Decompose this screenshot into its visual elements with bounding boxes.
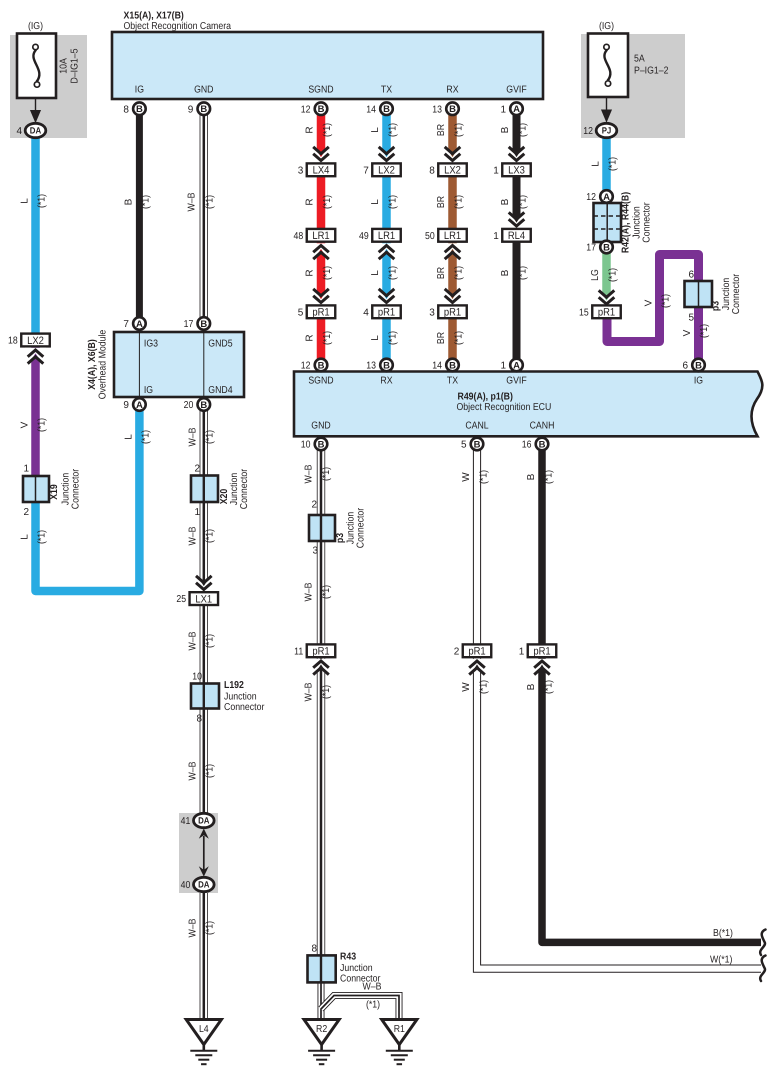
chevron out of LX2 — [25, 348, 46, 364]
svg-text:IG: IG — [135, 85, 144, 96]
svg-text:2: 2 — [194, 464, 200, 475]
svg-text:(*1): (*1) — [454, 331, 465, 345]
chevron into LX1 — [193, 576, 214, 592]
wire label W-B (*1) below p3 — [304, 582, 333, 601]
svg-text:(*1): (*1) — [518, 195, 529, 209]
camera pin 12 B — [301, 102, 328, 115]
svg-text:10: 10 — [192, 672, 202, 683]
svg-text:B: B — [124, 198, 135, 205]
wire label W (*1) CANL lower — [461, 680, 490, 694]
svg-text:GND5: GND5 — [208, 339, 233, 350]
junction connector X20 pin 2/1 — [191, 464, 218, 519]
svg-text:Junction: Junction — [224, 692, 257, 703]
junction connector p3 pin 6/5 right — [685, 270, 713, 324]
svg-text:(*1): (*1) — [205, 764, 216, 778]
svg-text:CANL: CANL — [465, 421, 489, 432]
svg-text:15: 15 — [579, 307, 589, 318]
svg-text:1: 1 — [500, 104, 506, 115]
wire L (blue) fuse P-IG1-2 to junction R42 — [602, 137, 611, 198]
wire label B (*1) CANH upper — [526, 470, 555, 484]
svg-text:16: 16 — [522, 440, 532, 451]
svg-text:TX: TX — [381, 85, 392, 96]
svg-text:DA: DA — [198, 816, 210, 826]
svg-text:SGND: SGND — [308, 376, 333, 387]
svg-text:(*1): (*1) — [544, 470, 555, 484]
wire W-B module pin 20 to ground L4 — [200, 404, 208, 1018]
svg-text:B: B — [603, 243, 610, 254]
svg-text:10: 10 — [301, 440, 311, 451]
chevron into pR1 — [311, 289, 332, 305]
svg-text:B: B — [136, 104, 143, 115]
ECU pin 6 B — [682, 359, 704, 372]
svg-text:(*1): (*1) — [454, 195, 465, 209]
svg-text:25: 25 — [176, 594, 186, 605]
svg-text:1: 1 — [194, 507, 200, 518]
module pin 20 B — [184, 398, 211, 411]
connector pR1 pin 1 — [519, 644, 557, 657]
connector LX3 pin 1 — [493, 163, 531, 176]
svg-text:(*1): (*1) — [37, 194, 48, 208]
label R43 Junction Connector — [340, 952, 381, 985]
svg-text:RX: RX — [446, 85, 458, 96]
svg-text:(*1): (*1) — [388, 195, 399, 209]
svg-text:14: 14 — [366, 104, 376, 115]
svg-text:9: 9 — [123, 400, 129, 411]
svg-text:(*1): (*1) — [454, 266, 465, 280]
svg-text:12: 12 — [586, 192, 596, 203]
svg-text:(*1): (*1) — [321, 585, 332, 599]
wire label BR (*1) mid1 — [436, 195, 465, 209]
svg-text:12: 12 — [301, 361, 311, 372]
svg-text:(*1): (*1) — [322, 331, 333, 345]
wire label W-B (*1) branch to R1 — [363, 982, 382, 1011]
svg-text:Connector: Connector — [224, 702, 265, 713]
svg-text:X19: X19 — [49, 484, 60, 500]
svg-text:W–B: W–B — [188, 526, 199, 545]
svg-text:14: 14 — [432, 361, 442, 372]
svg-text:(*1): (*1) — [479, 470, 490, 484]
wire label L (*1) mid1 — [370, 195, 399, 209]
wire L (blue) fuse D-IG1-5 to connector LX2 — [31, 135, 40, 340]
wire label R (*1) upper — [305, 123, 334, 137]
ECU pin 14 B — [432, 359, 459, 372]
svg-text:R: R — [305, 198, 316, 205]
wire W-B branch R43 to ground R1 — [321, 996, 399, 1021]
svg-text:(*1): (*1) — [518, 266, 529, 280]
module pin 9 A — [123, 398, 145, 411]
svg-text:13: 13 — [432, 104, 442, 115]
svg-text:(*1): (*1) — [141, 195, 152, 209]
wire BR (brown) camera RX to ECU pin 14 — [448, 108, 457, 365]
svg-text:L: L — [370, 270, 381, 276]
wire label W-B (*1) below X20 — [188, 526, 216, 545]
connector LR1 pin 49 — [359, 229, 401, 242]
svg-text:(*1): (*1) — [322, 266, 333, 280]
svg-text:GVIF: GVIF — [506, 85, 526, 96]
svg-text:B(*1): B(*1) — [713, 928, 733, 939]
svg-text:W(*1): W(*1) — [710, 955, 732, 966]
module pin 17 B — [184, 317, 211, 330]
svg-text:LX2: LX2 — [27, 335, 44, 347]
wire label B (*1) GVIF lower — [500, 266, 529, 280]
svg-text:9: 9 — [188, 104, 194, 115]
svg-text:R: R — [305, 269, 316, 276]
wire label R (*1) mid1 — [305, 195, 334, 209]
svg-text:A: A — [513, 361, 520, 372]
chevron into pR1 pin 15 — [596, 290, 617, 306]
svg-text:6: 6 — [682, 361, 688, 372]
connector oval PJ pin 12 — [583, 123, 617, 137]
svg-text:p3: p3 — [711, 301, 722, 312]
svg-text:p3: p3 — [335, 533, 346, 544]
connector oval DA pin 4 — [16, 123, 45, 137]
svg-text:W–B: W–B — [304, 464, 315, 483]
connector LX2 pin 8 — [429, 163, 467, 176]
ECU box Object Recognition ECU R49(A), p1(B) — [294, 372, 762, 437]
camera pin name labels — [135, 85, 527, 96]
ground R1 — [382, 1020, 417, 1065]
ECU pin 13 B — [366, 359, 393, 372]
svg-text:4: 4 — [16, 126, 22, 137]
svg-text:IG3: IG3 — [144, 339, 158, 350]
svg-text:17: 17 — [586, 243, 596, 254]
wire label BR (*1) upper — [436, 123, 465, 137]
svg-text:7: 7 — [123, 319, 129, 330]
svg-text:LG: LG — [590, 269, 601, 281]
svg-text:RL4: RL4 — [508, 230, 525, 242]
chevron into LX4 — [311, 147, 332, 163]
svg-text:RX: RX — [380, 376, 392, 387]
svg-text:1: 1 — [519, 646, 525, 657]
camera pin 14 B — [366, 102, 393, 115]
svg-text:GND: GND — [194, 85, 213, 96]
svg-text:13: 13 — [366, 361, 376, 372]
wire V (violet) pR1 pin 15 to ECU pin 6 via junction p3 — [607, 255, 699, 366]
wire label L (*1) mid2 — [370, 266, 399, 280]
svg-text:BR: BR — [436, 267, 447, 279]
connector LR1 pin 48 — [294, 229, 336, 242]
chevron out of LR1 — [442, 243, 463, 259]
module title X4(A), X6(B) Overhead Module (rotated) — [87, 329, 109, 399]
svg-text:(*1): (*1) — [205, 529, 216, 543]
svg-text:(*1): (*1) — [205, 634, 216, 648]
chevron into LX2 — [442, 147, 463, 163]
connector pR1 pin 2 — [454, 644, 492, 657]
wire W-B camera pin 9 to module pin 17 — [200, 108, 208, 323]
wire label R (*1) mid2 — [305, 266, 334, 280]
svg-text:1: 1 — [493, 165, 499, 176]
svg-text:B: B — [383, 361, 390, 372]
connector pR1 pin 15 — [579, 305, 621, 318]
wire R (red) camera SGND to ECU pin 12 — [317, 108, 326, 365]
net label W(*1) right exit — [710, 955, 732, 966]
svg-text:B: B — [383, 104, 390, 115]
svg-text:Object Recognition Camera: Object Recognition Camera — [124, 21, 232, 32]
junction connector L192 pin 10/8 — [191, 672, 219, 725]
svg-text:(*1): (*1) — [518, 123, 529, 137]
svg-text:W: W — [461, 682, 472, 692]
ECU bottom pin name labels — [311, 421, 554, 432]
svg-text:LR1: LR1 — [312, 230, 329, 242]
ECU top pin name labels — [308, 376, 703, 387]
svg-text:B: B — [200, 400, 207, 411]
svg-text:B: B — [526, 473, 537, 480]
svg-text:pR1: pR1 — [312, 307, 329, 319]
svg-text:(*1): (*1) — [454, 123, 465, 137]
svg-text:pR1: pR1 — [598, 307, 615, 319]
svg-text:B: B — [539, 440, 546, 451]
svg-text:A: A — [603, 192, 610, 203]
svg-text:W–B: W–B — [188, 761, 199, 780]
wire label L (*1) upper — [370, 123, 399, 137]
wire label W-B (*1) camera GND — [187, 192, 216, 211]
wire label LG (*1) — [590, 268, 619, 282]
svg-text:B: B — [526, 683, 537, 690]
chevron out of pR1 pin 1 — [532, 659, 553, 675]
svg-text:A: A — [136, 319, 143, 330]
svg-text:(*1): (*1) — [37, 530, 48, 544]
wire label R (*1) lower — [305, 331, 334, 345]
svg-text:(*1): (*1) — [388, 331, 399, 345]
svg-text:(IG): (IG) — [599, 21, 614, 32]
module pin 7 A — [123, 317, 145, 330]
svg-text:W–B: W–B — [188, 918, 199, 937]
wire B (black) camera pin 8 to module pin 7 — [136, 108, 143, 323]
svg-text:8: 8 — [196, 714, 202, 725]
wire label L (*1) module IG — [124, 430, 152, 444]
svg-text:V: V — [682, 329, 693, 336]
svg-text:LX2: LX2 — [378, 165, 395, 177]
ECU title R49(A), p1(B) Object Recognition ECU — [457, 392, 552, 414]
ground L4 — [186, 1020, 221, 1065]
connector pR1 pin 5 — [298, 305, 336, 318]
svg-text:50: 50 — [425, 231, 435, 242]
svg-text:41: 41 — [181, 816, 191, 827]
continuation brace B wire — [760, 930, 765, 956]
svg-text:20: 20 — [184, 400, 194, 411]
ground R2 — [304, 1020, 339, 1065]
svg-text:B: B — [318, 361, 325, 372]
svg-text:B: B — [695, 361, 702, 372]
svg-text:W–B: W–B — [304, 582, 315, 601]
svg-text:V: V — [644, 299, 655, 306]
camera pin 13 B — [432, 102, 459, 115]
svg-text:10A: 10A — [59, 58, 70, 74]
label p3 Junction Connector (rotated) — [335, 507, 367, 548]
svg-text:18: 18 — [8, 336, 18, 347]
svg-text:49: 49 — [359, 231, 369, 242]
svg-text:L192: L192 — [224, 680, 244, 691]
shield grey block around fuse P-IG1-2 — [581, 34, 685, 138]
svg-text:P–IG1–2: P–IG1–2 — [634, 66, 669, 77]
svg-text:4: 4 — [363, 307, 369, 318]
chevron out of pR1 pin 11 — [311, 659, 332, 675]
svg-text:(*1): (*1) — [321, 685, 332, 699]
svg-text:D–IG1–5: D–IG1–5 — [70, 48, 81, 83]
junction connector X19 pin 1/2 — [23, 464, 49, 519]
svg-text:(*1): (*1) — [388, 123, 399, 137]
chevron into LX3 — [506, 147, 527, 163]
junction connector R42(A), R44(B) — [594, 203, 622, 242]
svg-text:Connector: Connector — [731, 273, 742, 314]
wire L (blue) camera TX to ECU pin 13 — [382, 108, 391, 365]
value label 5A P-IG1-2 — [634, 54, 669, 77]
svg-text:3: 3 — [429, 307, 435, 318]
chevron into RL4 — [506, 212, 527, 228]
wire label BR (*1) mid2 — [436, 266, 465, 280]
svg-text:(*1): (*1) — [608, 268, 619, 282]
chevron out of pR1 pin 2 — [467, 659, 488, 675]
svg-text:(*1): (*1) — [661, 294, 672, 308]
label p3 Junction Connector right (rotated) — [711, 273, 743, 314]
svg-text:TX: TX — [447, 376, 458, 387]
svg-text:(*1): (*1) — [479, 680, 490, 694]
svg-text:R49(A), p1(B): R49(A), p1(B) — [458, 392, 513, 403]
svg-text:5A: 5A — [634, 54, 645, 65]
svg-text:(*1): (*1) — [37, 418, 48, 432]
wire label V (*1) LX2 to X19 — [20, 418, 48, 432]
net label (IG) right fuse — [599, 21, 614, 32]
svg-text:B: B — [474, 440, 481, 451]
continuation brace W wire — [760, 956, 765, 982]
svg-text:L: L — [20, 534, 31, 540]
svg-text:L: L — [591, 161, 602, 167]
camera pin 9 B — [188, 102, 210, 115]
arrows between DA connectors — [199, 829, 209, 877]
svg-text:pR1: pR1 — [444, 307, 461, 319]
svg-text:A: A — [136, 400, 143, 411]
svg-text:(*1): (*1) — [141, 430, 152, 444]
svg-text:LX1: LX1 — [195, 594, 212, 606]
wire label W-B (*1) module GND4 — [188, 427, 216, 446]
svg-text:L4: L4 — [199, 1024, 209, 1035]
wire label L (*1) below PJ — [591, 157, 619, 171]
svg-text:B: B — [500, 198, 511, 205]
svg-text:LX2: LX2 — [444, 165, 461, 177]
svg-text:Connector: Connector — [71, 468, 82, 509]
svg-text:17: 17 — [184, 319, 194, 330]
svg-text:R: R — [305, 126, 316, 133]
ECU pin 10 B — [301, 438, 328, 451]
svg-text:GVIF: GVIF — [506, 376, 526, 387]
junction connector R43 pin 8 — [308, 944, 336, 983]
label X20 Junction Connector (rotated) — [219, 468, 250, 509]
connector pR1 pin 4 — [363, 305, 401, 318]
connector LR1 pin 50 — [425, 229, 467, 242]
connector pR1 pin 3 — [429, 305, 467, 318]
net label (IG) left fuse — [28, 21, 43, 32]
svg-text:V: V — [20, 421, 31, 428]
svg-text:(*1): (*1) — [366, 1000, 380, 1011]
svg-text:11: 11 — [294, 646, 303, 657]
connector LX2 pin 18 — [8, 334, 50, 347]
svg-text:L: L — [20, 198, 31, 204]
svg-text:2: 2 — [311, 500, 317, 511]
arrow fuse to connector PJ — [602, 97, 612, 122]
wire label V (*1) mid loop — [644, 294, 672, 308]
wire label W-B (*1) below L192 — [188, 761, 216, 780]
svg-text:PJ: PJ — [602, 126, 612, 136]
connector oval DA pin 41 — [181, 813, 215, 827]
shield grey block around DA-DA — [179, 813, 218, 893]
wire label W-B (*1) below ECU GND — [304, 464, 333, 483]
wire label W (*1) CANL upper — [461, 470, 490, 484]
svg-text:X15(A), X17(B): X15(A), X17(B) — [124, 11, 184, 22]
svg-text:40: 40 — [181, 880, 191, 891]
svg-text:Object Recognition ECU: Object Recognition ECU — [457, 402, 552, 413]
wire W-B ECU GND pin 10 to junction R43 — [317, 444, 325, 982]
svg-text:B: B — [200, 319, 207, 330]
svg-text:Junction: Junction — [340, 963, 373, 974]
shield grey block around fuse D-IG1-5 — [10, 35, 87, 138]
ECU pin 1 A — [500, 359, 522, 372]
svg-text:BR: BR — [436, 332, 447, 344]
junction R42 pin 12 A — [586, 190, 613, 203]
value label 10A D-IG1-5 (rotated) — [59, 48, 81, 83]
svg-text:W–B: W–B — [363, 982, 382, 993]
svg-text:1: 1 — [23, 464, 29, 475]
svg-text:(*1): (*1) — [699, 324, 710, 338]
svg-text:CANH: CANH — [530, 421, 555, 432]
svg-text:(*1): (*1) — [322, 195, 333, 209]
svg-text:Connector: Connector — [356, 507, 367, 548]
ECU pin 12 B — [301, 359, 328, 372]
svg-text:8: 8 — [429, 165, 435, 176]
wire W (white) ECU CANL pin 5 to right edge — [477, 444, 761, 969]
svg-text:Connector: Connector — [642, 202, 653, 243]
svg-text:L: L — [370, 335, 381, 341]
svg-text:5: 5 — [461, 440, 467, 451]
svg-text:48: 48 — [294, 231, 304, 242]
svg-text:pR1: pR1 — [312, 646, 329, 658]
svg-text:(*1): (*1) — [608, 157, 619, 171]
connector LX1 pin 25 — [176, 592, 218, 605]
svg-text:12: 12 — [301, 104, 311, 115]
fuse 5A P-IG1-2 — [588, 34, 628, 98]
svg-text:(IG): (IG) — [28, 21, 43, 32]
wire label W-B (*1) below pR1 11 — [304, 682, 333, 701]
camera pin 1 A — [500, 102, 522, 115]
svg-text:5: 5 — [688, 313, 694, 324]
net label B(*1) right exit — [713, 928, 733, 939]
connector RL4 pin 1 — [493, 229, 531, 242]
svg-text:B: B — [449, 104, 456, 115]
svg-text:(*1): (*1) — [205, 921, 216, 935]
svg-text:W–B: W–B — [187, 192, 198, 211]
svg-text:W–B: W–B — [188, 427, 199, 446]
fuse 10A D-IG1-5 — [17, 34, 56, 99]
svg-text:8: 8 — [311, 944, 317, 955]
svg-text:Connector: Connector — [239, 468, 250, 509]
svg-text:L: L — [370, 199, 381, 205]
ECU box Object Recognition Camera X15/X17 — [112, 32, 543, 99]
svg-text:3: 3 — [312, 546, 318, 557]
wire label W-B (*1) below LX1 — [188, 631, 216, 650]
connector pR1 pin 11 — [294, 644, 335, 657]
svg-text:6: 6 — [688, 270, 694, 281]
wire label B (*1) GVIF mid — [500, 195, 529, 209]
svg-text:1: 1 — [493, 231, 499, 242]
svg-text:LX4: LX4 — [313, 165, 330, 177]
junction connector p3 pin 2/3 — [309, 500, 335, 557]
wire B (black) camera GVIF to ECU pin 1 — [513, 108, 521, 365]
svg-text:(*1): (*1) — [205, 430, 216, 444]
svg-text:W–B: W–B — [188, 631, 199, 650]
svg-text:R43: R43 — [340, 952, 356, 963]
chevron into LX2 — [376, 147, 397, 163]
svg-text:(*1): (*1) — [388, 266, 399, 280]
ECU pin 5 B — [461, 438, 483, 451]
